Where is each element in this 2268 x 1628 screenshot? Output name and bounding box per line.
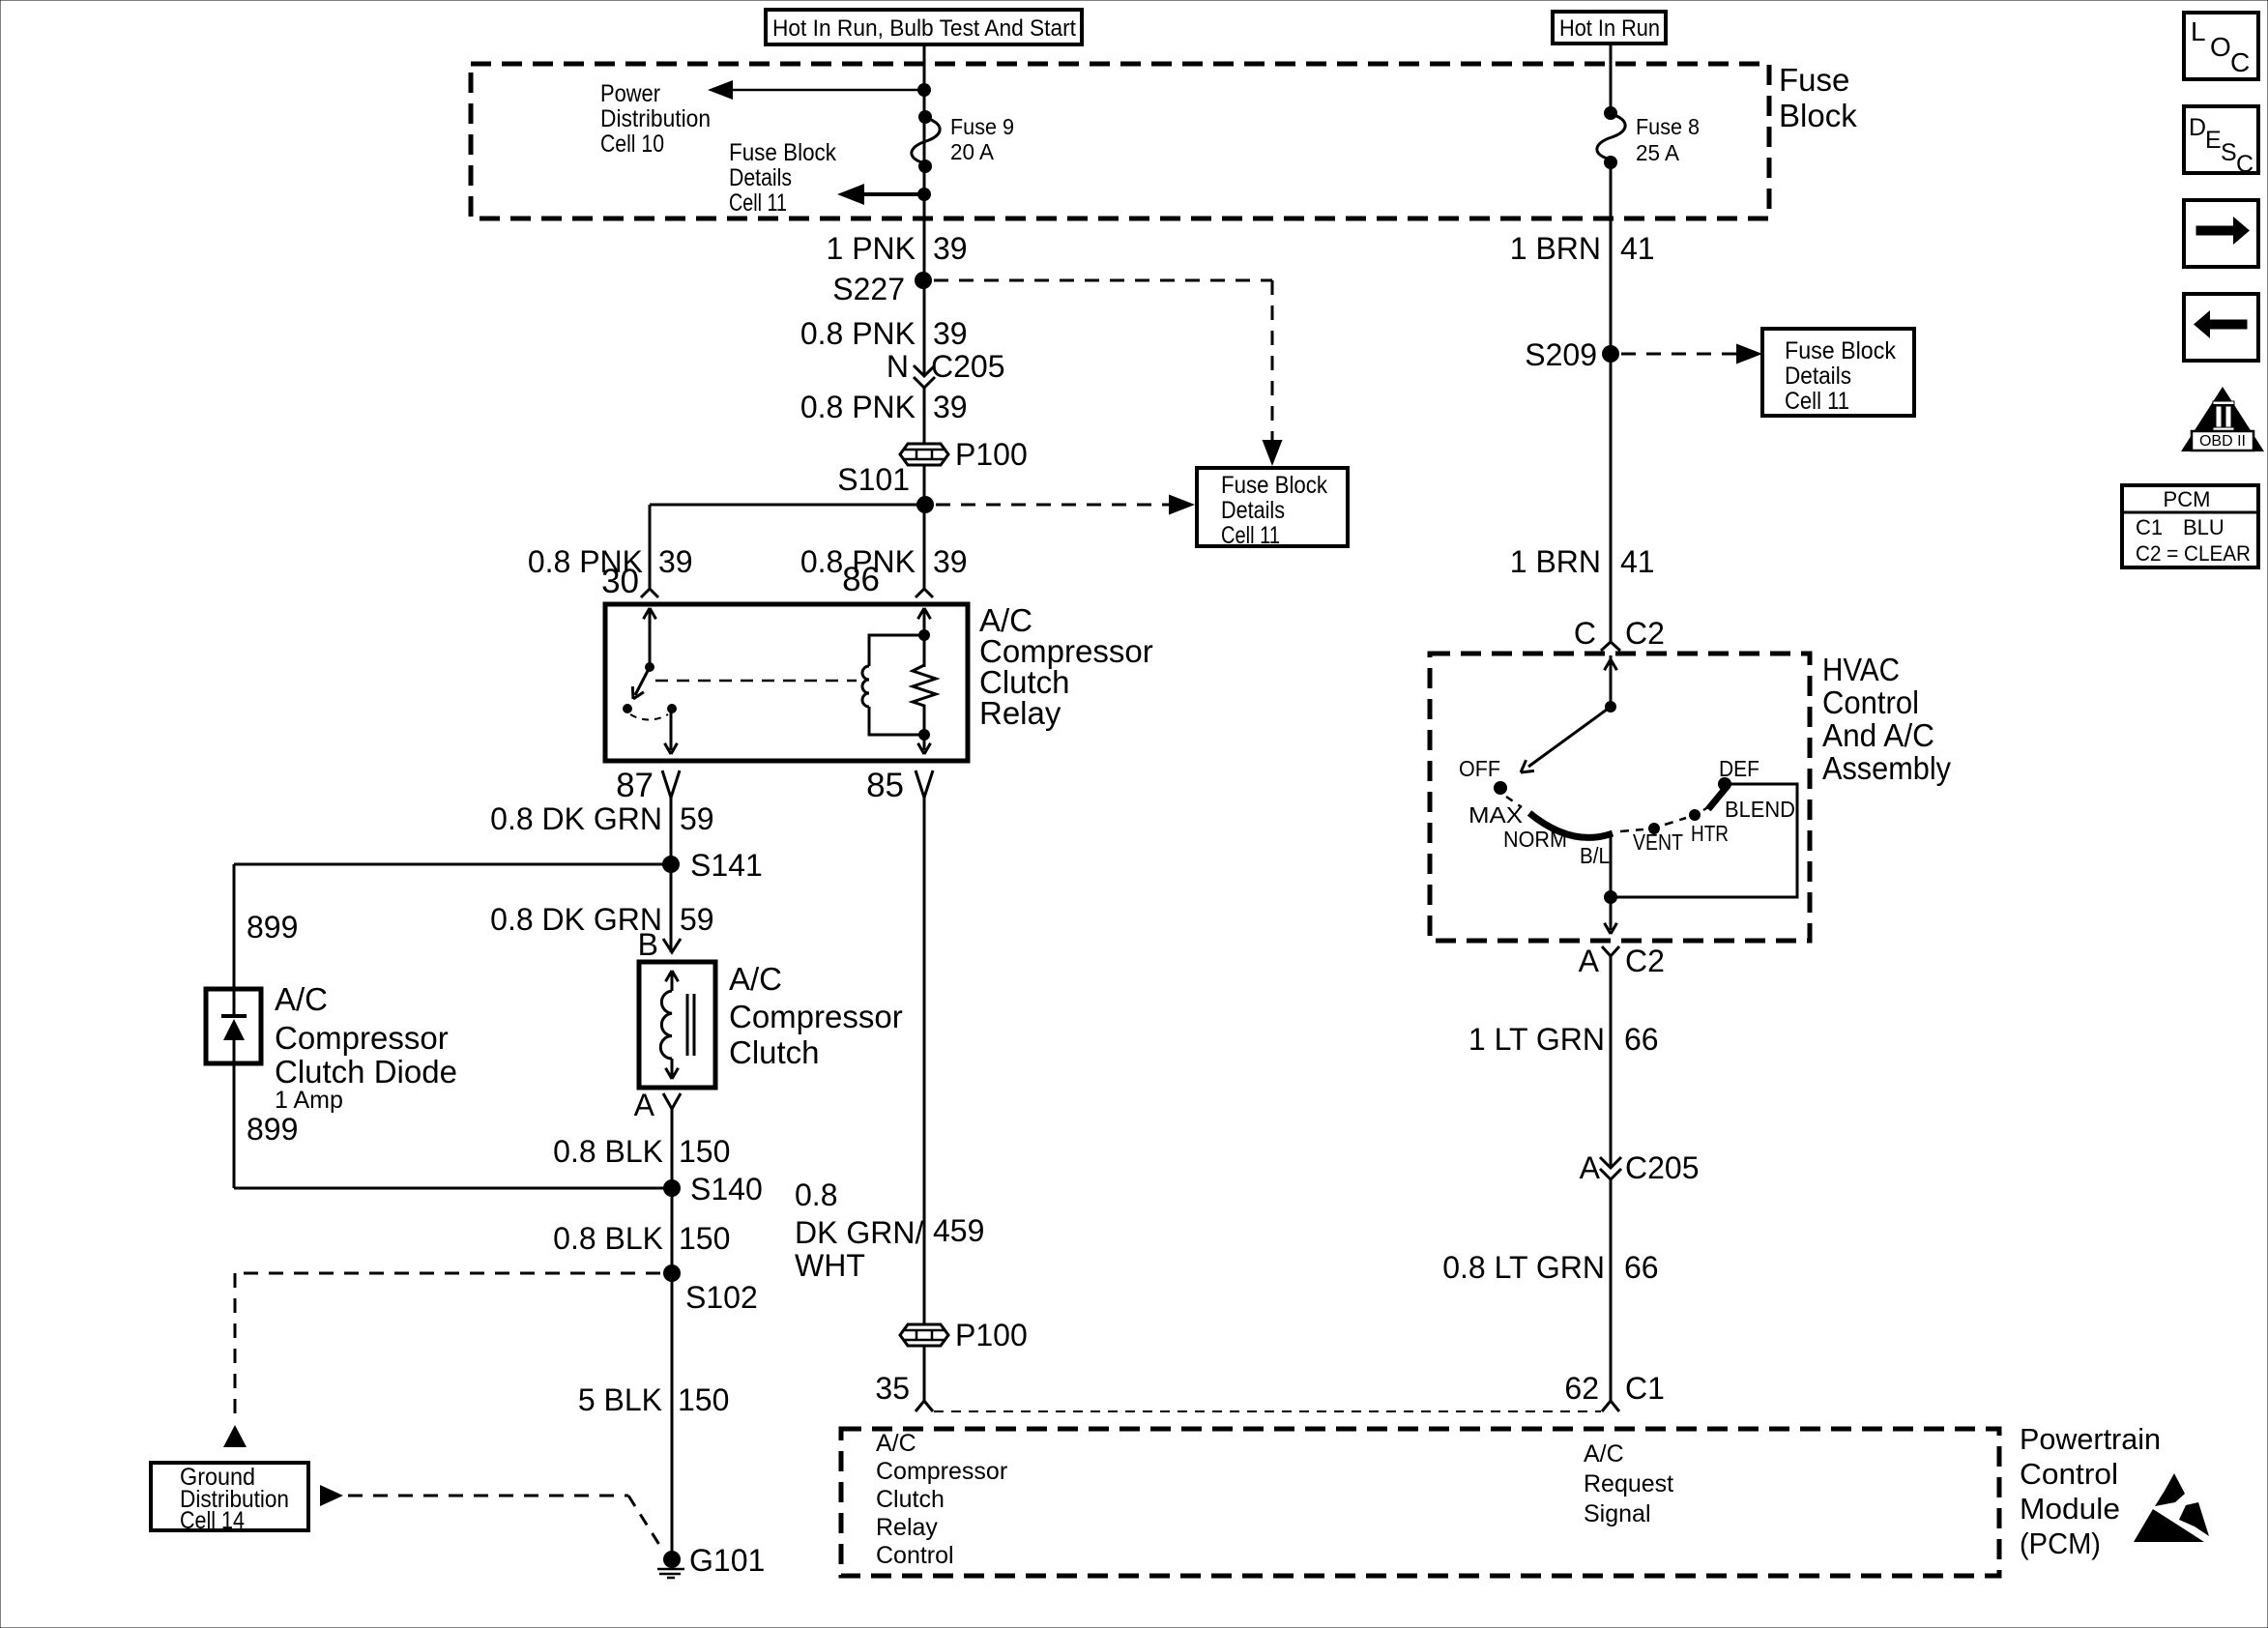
svg-text:0.8: 0.8 [795, 1177, 837, 1212]
svg-text:Cell 14: Cell 14 [180, 1507, 245, 1534]
svg-text:1 BRN: 1 BRN [1510, 231, 1601, 266]
svg-text:Fuse: Fuse [1779, 62, 1849, 98]
svg-text:D: D [2189, 114, 2206, 141]
svg-text:P100: P100 [955, 437, 1028, 472]
svg-text:S141: S141 [690, 848, 763, 883]
svg-text:Signal: Signal [1584, 1500, 1651, 1527]
svg-text:35: 35 [875, 1371, 910, 1406]
svg-text:25 A: 25 A [1636, 140, 1680, 165]
svg-text:62: 62 [1564, 1371, 1599, 1406]
svg-text:Distribution: Distribution [600, 105, 711, 132]
svg-text:C1: C1 [1625, 1371, 1665, 1406]
svg-text:Compressor: Compressor [729, 999, 903, 1034]
svg-text:0.8 DK GRN: 0.8 DK GRN [490, 902, 662, 937]
svg-text:Control: Control [2020, 1457, 2118, 1491]
svg-text:(PCM): (PCM) [2020, 1526, 2101, 1560]
svg-text:Fuse Block: Fuse Block [1785, 337, 1896, 364]
svg-text:Relay: Relay [979, 695, 1061, 731]
svg-text:S227: S227 [832, 272, 905, 306]
svg-text:0.8 PNK: 0.8 PNK [800, 390, 916, 424]
svg-text:Clutch Diode: Clutch Diode [275, 1054, 457, 1090]
svg-text:L: L [2191, 16, 2206, 46]
svg-text:Details: Details [729, 164, 792, 191]
svg-text:Module: Module [2020, 1492, 2120, 1526]
svg-text:459: 459 [933, 1213, 984, 1248]
svg-text:Compressor: Compressor [275, 1020, 449, 1056]
svg-text:Request: Request [1584, 1470, 1673, 1497]
svg-text:B: B [638, 927, 658, 962]
svg-text:Clutch: Clutch [876, 1486, 945, 1513]
svg-text:Assembly: Assembly [1822, 750, 1951, 786]
svg-text:Powertrain: Powertrain [2020, 1422, 2161, 1456]
svg-text:S209: S209 [1525, 337, 1597, 372]
svg-text:MAX: MAX [1468, 802, 1523, 828]
svg-text:Cell 11: Cell 11 [1221, 522, 1280, 549]
svg-text:39: 39 [933, 316, 968, 351]
svg-text:150: 150 [678, 1382, 729, 1417]
svg-text:DK GRN/: DK GRN/ [795, 1215, 923, 1250]
svg-text:BLEND: BLEND [1725, 797, 1795, 822]
svg-text:1 LT GRN: 1 LT GRN [1468, 1022, 1605, 1057]
svg-text:Control: Control [876, 1542, 954, 1569]
svg-text:1 Amp: 1 Amp [275, 1087, 343, 1114]
svg-text:A: A [1580, 1150, 1601, 1185]
svg-text:41: 41 [1620, 231, 1655, 266]
svg-text:Details: Details [1785, 363, 1851, 390]
svg-text:S101: S101 [837, 462, 910, 497]
svg-text:5 BLK: 5 BLK [578, 1382, 662, 1417]
svg-text:Block: Block [1779, 98, 1857, 133]
svg-text:1 PNK: 1 PNK [827, 231, 916, 266]
svg-text:E: E [2205, 127, 2222, 154]
svg-text:87: 87 [616, 767, 654, 804]
svg-text:C2 = CLEAR: C2 = CLEAR [2136, 541, 2251, 566]
svg-text:C205: C205 [931, 349, 1005, 384]
svg-text:0.8 BLK: 0.8 BLK [553, 1134, 663, 1169]
svg-text:0.8 PNK: 0.8 PNK [800, 316, 916, 351]
svg-text:Clutch: Clutch [729, 1034, 820, 1070]
svg-text:66: 66 [1624, 1250, 1659, 1285]
svg-text:Cell 10: Cell 10 [600, 131, 664, 158]
svg-text:899: 899 [247, 910, 298, 945]
svg-text:C205: C205 [1625, 1150, 1700, 1185]
svg-text:Cell 11: Cell 11 [1785, 388, 1849, 415]
svg-text:C2: C2 [1625, 944, 1665, 978]
svg-text:C: C [2230, 47, 2250, 77]
svg-text:A/C: A/C [876, 1430, 916, 1457]
svg-text:S102: S102 [685, 1280, 758, 1315]
svg-text:Power: Power [600, 80, 660, 107]
svg-text:Fuse Block: Fuse Block [1221, 472, 1327, 499]
svg-text:O: O [2210, 32, 2231, 62]
svg-text:NORM: NORM [1503, 827, 1567, 852]
svg-text:1 BRN: 1 BRN [1510, 544, 1601, 579]
svg-text:66: 66 [1624, 1022, 1659, 1057]
svg-text:85: 85 [866, 767, 904, 804]
svg-text:A: A [634, 1088, 655, 1122]
svg-text:And A/C: And A/C [1822, 717, 1934, 753]
svg-text:HVAC: HVAC [1822, 652, 1900, 687]
svg-text:A/C: A/C [729, 961, 782, 997]
svg-text:150: 150 [679, 1134, 730, 1169]
svg-text:WHT: WHT [795, 1248, 865, 1283]
svg-text:Control: Control [1822, 684, 1919, 720]
svg-text:OFF: OFF [1459, 756, 1500, 781]
svg-text:A: A [1579, 944, 1600, 978]
svg-text:59: 59 [680, 801, 714, 836]
svg-text:Fuse 9: Fuse 9 [950, 114, 1014, 139]
svg-text:A/C: A/C [275, 981, 328, 1017]
svg-text:Relay: Relay [876, 1514, 938, 1541]
svg-text:86: 86 [842, 561, 880, 598]
svg-text:30: 30 [601, 563, 639, 600]
svg-text:59: 59 [680, 902, 714, 937]
svg-text:Cell 11: Cell 11 [729, 189, 787, 217]
svg-text:C: C [2236, 151, 2253, 178]
svg-text:C1: C1 [2136, 515, 2163, 539]
svg-text:BLU: BLU [2183, 515, 2224, 539]
svg-text:OBD II: OBD II [2199, 433, 2246, 450]
svg-text:0.8 LT GRN: 0.8 LT GRN [1442, 1250, 1605, 1285]
svg-text:S: S [2221, 139, 2237, 166]
svg-text:39: 39 [933, 544, 968, 579]
svg-text:A/C: A/C [1584, 1440, 1624, 1468]
svg-text:39: 39 [933, 390, 968, 424]
svg-text:0.8 DK GRN: 0.8 DK GRN [490, 801, 662, 836]
svg-text:P100: P100 [955, 1318, 1028, 1352]
svg-text:Fuse Block: Fuse Block [729, 139, 836, 166]
svg-text:Compressor: Compressor [876, 1458, 1007, 1485]
svg-text:G101: G101 [689, 1543, 765, 1578]
svg-text:899: 899 [247, 1112, 298, 1147]
svg-text:150: 150 [679, 1221, 730, 1256]
svg-text:Fuse 8: Fuse 8 [1636, 114, 1700, 139]
svg-text:B/L: B/L [1580, 843, 1610, 868]
svg-text:41: 41 [1620, 544, 1655, 579]
svg-text:N: N [887, 349, 909, 384]
svg-text:39: 39 [933, 231, 968, 266]
svg-text:VENT: VENT [1633, 829, 1683, 855]
svg-text:20 A: 20 A [950, 139, 995, 164]
svg-text:Details: Details [1221, 497, 1285, 524]
svg-text:0.8 BLK: 0.8 BLK [553, 1221, 663, 1256]
svg-text:PCM: PCM [2164, 487, 2211, 511]
svg-text:Hot In Run, Bulb Test And Star: Hot In Run, Bulb Test And Start [772, 15, 1076, 42]
svg-text:S140: S140 [690, 1172, 763, 1206]
svg-text:C: C [1574, 616, 1596, 651]
svg-text:HTR: HTR [1691, 821, 1729, 846]
svg-text:Hot In Run: Hot In Run [1559, 15, 1660, 42]
svg-text:39: 39 [658, 544, 693, 579]
svg-text:C2: C2 [1625, 616, 1665, 651]
